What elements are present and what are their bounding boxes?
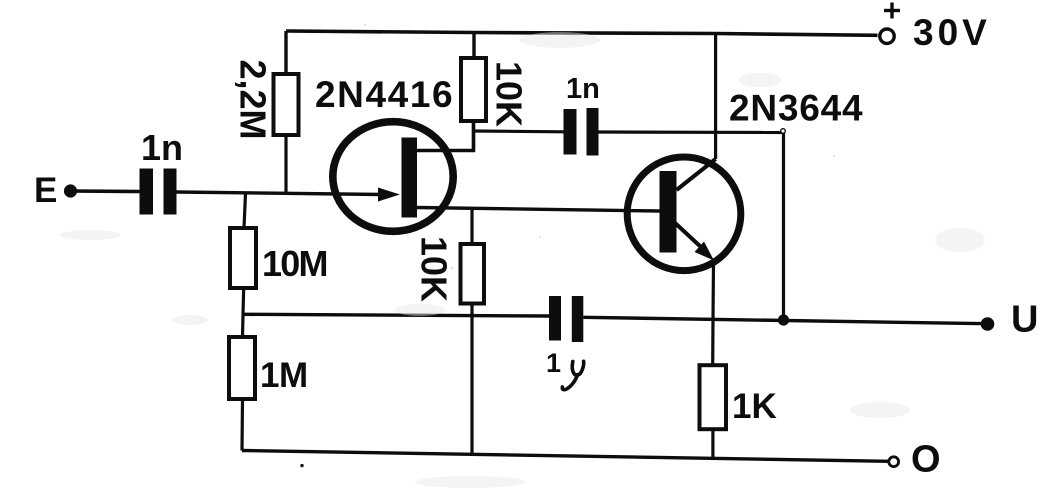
svg-text:10K: 10K — [489, 61, 530, 127]
svg-text:O: O — [911, 439, 941, 481]
svg-text:E: E — [34, 171, 57, 210]
resistor R2 10M — [230, 228, 256, 288]
wire feedback vertical — [782, 133, 785, 321]
transistor Q2 2N3644 body circle — [627, 157, 741, 271]
terminal O open circle — [889, 457, 899, 467]
terminal U dot — [981, 317, 995, 331]
transistor Q2 base bar — [660, 171, 677, 253]
wire E to C1 — [70, 189, 140, 193]
wire 10K top lead — [472, 33, 475, 59]
wire feedback line right — [599, 130, 784, 134]
transistor Q2 collector lead — [677, 159, 716, 190]
svg-text:1n: 1n — [566, 73, 600, 105]
svg-text:1K: 1K — [732, 387, 777, 426]
capacitor C2 1n feedback — [564, 108, 599, 156]
wire 2,2M top lead — [284, 31, 287, 74]
resistor R5 10K source — [461, 244, 485, 304]
wire bootstrap line — [243, 314, 549, 316]
transistor Q2 emitter arrow — [695, 242, 715, 261]
svg-text:2N3644: 2N3644 — [729, 88, 863, 129]
wire 10K source top lead — [470, 208, 473, 244]
svg-text:2N4416: 2N4416 — [315, 74, 454, 115]
svg-text:2,2M: 2,2M — [233, 59, 274, 139]
resistor R3 1M — [229, 337, 255, 399]
JFET Q1 gate arrow — [378, 188, 400, 202]
terminal E dot — [64, 184, 77, 197]
wire top supply rail — [286, 31, 878, 35]
wire gate line — [177, 192, 383, 195]
svg-text:10K: 10K — [414, 236, 455, 302]
svg-text:1n: 1n — [141, 127, 183, 168]
node feedback junction dot — [778, 314, 789, 325]
wire 10M top lead — [244, 194, 246, 229]
wire 2,2M bottom lead — [284, 135, 287, 194]
node feedback corner dot — [781, 129, 786, 134]
JFET Q1 2N4416 body circle — [333, 122, 453, 232]
resistor R6 1K — [700, 365, 727, 429]
wire source line to base — [417, 208, 660, 212]
transistor Q2 emitter lead — [674, 222, 702, 248]
wire emitter down — [711, 262, 715, 319]
JFET Q1 channel bar — [402, 138, 418, 218]
wire 10K source bottom lead — [470, 304, 473, 455]
capacitor C3 1u — [549, 296, 583, 342]
wire 10M bottom lead — [241, 288, 245, 314]
svg-text:30V: 30V — [913, 12, 991, 53]
wire bottom rail — [242, 451, 889, 462]
plus sign — [884, 3, 900, 19]
capacitor C1 1n input — [140, 169, 177, 215]
wire collector to rail — [714, 34, 717, 160]
wire 10K bottom stub — [472, 121, 475, 151]
wire 1M top lead — [241, 314, 245, 337]
svg-text:1: 1 — [546, 348, 561, 378]
svg-text:U: U — [1011, 299, 1038, 341]
wire 1K bottom lead — [711, 429, 714, 458]
wire drain lead — [417, 121, 474, 151]
svg-text:1M: 1M — [260, 356, 308, 395]
wire feedback line left — [474, 129, 564, 133]
wire 1K top lead — [711, 319, 714, 365]
resistor R1 2,2M — [274, 74, 299, 135]
resistor R4 10K drain — [461, 58, 486, 121]
terminal +30V open circle — [880, 29, 894, 43]
wire U output line — [583, 317, 987, 323]
svg-text:10M: 10M — [262, 243, 327, 284]
wire 1M bottom lead — [240, 399, 244, 451]
